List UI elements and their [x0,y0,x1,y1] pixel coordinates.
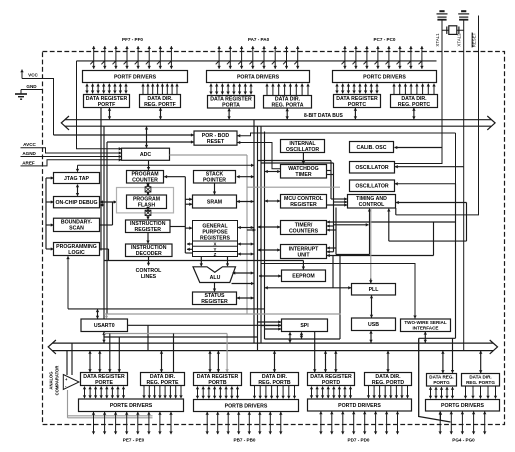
PORTB register-driver arrows [198,387,238,399]
DATA DIR. REG. PORTG box [462,374,500,387]
svg-text:AGND: AGND [22,151,36,156]
PORTE DRIVERS box [79,399,184,412]
svg-text:REG. PORTC: REG. PORTC [398,102,431,108]
PORTG register-driver arrows [431,387,453,399]
OSCILLATOR 2 box [350,180,395,192]
wire into timing and control 1 [331,198,347,200]
timing control corner wire [395,208,397,215]
SPI to frame wire [301,332,303,338]
grey frame around program flash [117,188,174,213]
bus trunk to MCU control register [265,200,280,202]
timing to PLL wire [370,208,372,278]
svg-text:SPI: SPI [300,323,309,329]
svg-text:COUNTER: COUNTER [132,178,158,184]
analog comparator [63,375,79,390]
CALIB. OSC box [350,142,394,153]
peripheral frame bottom [265,338,341,340]
GENERAL PURPOSE REGISTERS box [193,221,238,258]
bus to PORTD register 2 [335,351,337,372]
stack pointer to trunk [237,176,254,178]
wire to JTAG TAP [46,177,54,179]
svg-text:PORTB: PORTB [208,380,226,386]
8-bit data bus (top) [61,116,495,130]
wire up into timing control 2 [388,209,390,241]
wire to timing vertical [334,224,369,226]
svg-text:REG. PORTB: REG. PORTB [258,380,291,386]
XTAL2 capacitor to ground [458,11,469,20]
grey wire into USART0 [104,314,107,319]
svg-text:ON-CHIP DEBUG: ON-CHIP DEBUG [56,200,98,206]
grey vertical right of CPU [246,155,248,314]
bus trunk line 3 [260,126,262,343]
DATA DIR. REG. PORTF box [140,95,181,108]
PORTF driver-dir arrows [143,84,177,94]
ADC box [122,148,170,160]
wire into timing and control 2 [334,201,348,203]
ALU flags to trunk [232,283,254,285]
PORTA dir-reg to data bus [286,109,288,120]
PORTF DRIVERS box [83,71,188,83]
XTAL1 pin line [395,20,442,164]
Z register to bus trunk [238,253,254,255]
wire into registers [185,227,192,229]
TIMING AND CONTROL box [348,195,396,209]
MCU control to timing and control [327,204,348,206]
arrow into program counter [164,176,185,178]
SPI box [282,319,328,332]
svg-text:LOGIC: LOGIC [68,250,85,256]
grey horizontal wire [247,186,340,188]
svg-text:REG. PORTG: REG. PORTG [466,380,495,385]
TWO-WIRE SERIAL INTERFACE box [401,319,451,332]
TIMER/COUNTERS box [281,221,327,235]
PORTD pin arrows [321,412,398,435]
svg-text:PA7 - PA0: PA7 - PA0 [248,37,270,42]
VCC to POR-BOD wire [54,134,194,136]
status register to bus trunk [237,297,254,299]
svg-text:EEPROM: EEPROM [292,274,314,280]
WATCHDOG TIMER box [281,165,327,179]
instruction register to pointer wire [170,226,185,228]
ADC output wire [170,154,248,156]
svg-text:TIMER: TIMER [295,172,311,178]
long grey wire [104,313,341,315]
JTAG TAP box [54,173,100,184]
timer/counters right wire 2 [327,225,334,227]
PROGRAMMING LOGIC box [54,243,100,256]
PORTG pin arrows [440,412,485,435]
DATA DIR. REG. PORTC box [391,95,438,108]
bus to PORTD register [325,351,327,372]
SPI to bottom bus [289,332,291,342]
bus to PORTE dir-reg [161,351,163,372]
bus to PORTG dir-reg [480,351,482,373]
feed wire to JTAG and program counter [78,164,254,166]
svg-text:PORTD: PORTD [322,380,340,386]
svg-text:PORTG DRIVERS: PORTG DRIVERS [441,403,484,409]
PORTD DRIVERS box [308,399,412,411]
left trunk line 1 [100,108,102,251]
bus trunk line 4 [264,132,266,340]
RESET overline [471,33,473,48]
DATA REGISTER PORTB box [194,373,242,386]
USART wire to PORTE register [109,334,111,373]
svg-text:ALU: ALU [210,275,221,281]
watchdog right wire [327,170,332,172]
svg-text:PLL: PLL [369,287,380,293]
svg-text:DECODER: DECODER [136,251,162,257]
DATA REGISTER PORTE box [81,373,128,386]
wire into SRAM [185,198,192,200]
timing feed vertical 2 [333,163,335,252]
GND pin [21,84,43,94]
X register out wire [187,243,193,245]
internal oscillator to watchdog [302,153,304,164]
svg-text:Z: Z [214,252,217,257]
wire to two-wire serial interface [261,264,415,319]
PORTB DRIVERS box [194,400,299,412]
USART0 to bottom bus [103,332,105,343]
bus to PORTE register [89,351,91,372]
ADC wire into program counter [148,161,150,170]
program flash to latch [147,208,149,211]
DATA DIR. REG. PORTA box [264,96,312,109]
svg-text:XTAL1: XTAL1 [435,33,440,47]
INSTRUCTION DECODER box [126,244,173,257]
PORTC driver-dir arrows [394,84,434,94]
grey wire to PORTB register [104,333,227,335]
wire to BOUNDARY-SCAN [46,224,54,226]
svg-text:PG4 - PG0: PG4 - PG0 [452,438,475,443]
PORTF driver-register arrows [87,84,126,94]
wire to PORTE register 2 [118,337,120,372]
DATA REGISTER PORTC box [334,95,381,108]
PROGRAMMING LOGIC right wire [100,248,109,250]
USART0 to SPI wire [128,324,282,326]
bus trunk to interrupt unit [258,249,280,251]
TWI to bottom bus [424,332,426,343]
svg-text:PE7 - PE0: PE7 - PE0 [123,438,145,443]
bus trunk to SPI 2 [261,325,281,327]
grey wire down to PORTB register [226,334,228,373]
program counter to latch [147,184,149,187]
DATA DIR. REG. PORTB box [251,373,299,386]
bus trunk to timer/counters [258,226,280,228]
bus trunk to watchdog [265,171,280,173]
wire into trunk [247,229,256,231]
trunk to timing wire 1 [258,160,332,162]
DATA REG. PORTG box [427,374,457,387]
bus to PORTG register [442,351,444,373]
svg-text:REGISTERS: REGISTERS [200,236,231,242]
PORTC register to data bus [354,108,356,119]
registers to ALU 2 [227,257,229,266]
timing loop vertical [466,203,468,242]
boundary scan vertical wire [112,202,114,225]
PROGRAM FLASH box [127,195,167,209]
PORTE pin arrows [94,412,172,434]
BOUNDARY-SCAN wire [100,224,113,226]
PORTA driver-dir arrows [267,84,308,95]
ALU [193,267,236,283]
PORTA driver-register arrows [211,84,251,95]
comparator pin wire 1 [68,415,153,417]
svg-text:REGISTER: REGISTER [134,227,161,233]
programming logic feed from SPI [67,256,69,309]
bus to PORTB register [209,351,211,372]
latch to program flash [147,192,149,194]
bus trunk to SPI 3 [265,328,281,330]
PORTB dir-driver arrows [255,386,295,399]
svg-text:REG. PORTA: REG. PORTA [272,103,304,109]
comparator input wire 2 [71,343,73,375]
RESET pin line [396,16,479,215]
svg-text:COMPARATOR: COMPARATOR [55,366,60,396]
wire into SRAM 2 [185,203,192,205]
wire to ON-CHIP DEBUG [46,201,54,203]
svg-text:LINES: LINES [141,274,157,280]
svg-text:REGISTER: REGISTER [290,202,317,208]
PORTF analog input to ADC [77,61,122,149]
svg-text:FLASH: FLASH [138,203,156,209]
DATA DIR. REG. PORTE box [141,373,185,386]
wire along CPU bottom [68,308,264,310]
svg-text:PORTE: PORTE [95,380,113,386]
PORTF dir-reg to data bus [160,108,162,119]
VCC pin [22,70,54,136]
interrupt right wire 3 [327,255,434,257]
PORTA DRIVERS box [207,71,310,83]
svg-text:OSCILLATOR: OSCILLATOR [355,165,388,171]
svg-text:PORTF: PORTF [98,102,116,108]
svg-text:OSCILLATOR: OSCILLATOR [355,184,388,190]
PORTC pin arrows [345,46,422,68]
latch symbol above flash [145,187,151,192]
JTAG TAP to ON-CHIP DEBUG [77,185,79,196]
X register to bus trunk [238,243,254,245]
DATA DIR. REG. PORTD box [365,373,412,386]
PLL to USB [371,296,373,318]
svg-text:PORTD DRIVERS: PORTD DRIVERS [338,403,381,409]
POR-BOD right clock wire [238,133,456,136]
SRAM to bus trunk [237,201,254,203]
PORTA pin arrows [219,46,298,68]
comparator pin wire 2 [68,417,153,419]
XTAL2 wire into oscillator [395,166,464,168]
wire to PORTG drivers [419,338,451,422]
bus trunk to PLL [265,287,351,289]
svg-text:RESET: RESET [207,139,225,145]
XTAL2 pin line [463,20,465,167]
bus to PORTB register 2 [217,351,219,372]
data bus to ADC [146,127,148,148]
bus trunk line 1 [253,120,255,343]
comparator to port wire [67,390,69,418]
svg-text:REG. PORTF: REG. PORTF [144,102,176,108]
latch symbol below flash [145,210,151,215]
wire toward PORTG [419,337,456,339]
interrupt right wire [327,247,336,249]
branch to oscillator 2 [395,133,456,184]
pin wire hooks [90,61,422,64]
interrupt wire to PLL line [332,256,334,288]
svg-text:PD7 - PD0: PD7 - PD0 [348,438,370,443]
svg-text:PC7 - PC0: PC7 - PC0 [374,37,396,42]
watchdog right wire 2 [327,174,334,176]
POR-BOD to watchdog wire [238,143,281,169]
left trunk line 3 [106,142,108,314]
PORTC DRIVERS box [333,71,437,83]
svg-text:PORTA: PORTA [222,103,240,109]
svg-text:INTERFACE: INTERFACE [412,326,438,331]
XTAL1 capacitor to ground [437,11,448,20]
wire to POR-BOD [107,141,194,143]
INTERNAL OSCILLATOR box [281,140,325,153]
svg-text:UNIT: UNIT [297,252,310,258]
PORTA register to data bus [228,109,230,120]
AGND pin [21,151,122,156]
timer clock wire from oscillator [327,221,456,223]
vertical wire right of timing [455,184,457,338]
svg-text:CONTROL: CONTROL [136,268,162,274]
timer control vertical [335,208,337,255]
svg-text:PORTG: PORTG [433,380,450,385]
horizontal wire above bus [104,336,258,338]
timing loop horizontal [389,240,467,242]
stack pointer to SRAM [214,184,216,195]
USART wire to port [147,325,149,350]
AVCC pin [21,142,122,153]
timer/counters right wire 3 [327,229,336,231]
calib osc wire to XTAL1 [395,147,443,149]
left test wire trunk [45,178,47,249]
pointer address wire [184,177,186,253]
8-bit data bus (bottom) [48,340,497,354]
timing feed vertical 1 [330,161,332,200]
arrow into PLL [370,279,372,284]
timing control right wire [396,202,467,204]
PORTD register-driver arrows [312,387,351,399]
PORTB pin arrows [207,412,281,434]
svg-text:POINTER: POINTER [203,178,226,184]
Y register out wire [187,248,193,250]
PORTE register-driver arrows [85,387,124,399]
USB box [352,318,396,331]
svg-text:ADC: ADC [140,152,151,158]
USART0 box [81,319,128,332]
instruction register to decoder [147,233,149,243]
svg-text:USB: USB [368,322,379,328]
PORTG DRIVERS box [426,400,500,412]
bus to PORTB dir-reg [274,351,276,372]
svg-text:PB7 - PB0: PB7 - PB0 [234,438,256,443]
peripheral frame vertical [339,256,341,340]
PORTC driver-register arrows [337,84,377,94]
ON-CHIP DEBUG box [54,197,100,208]
DATA REGISTER PORTD box [308,373,355,386]
PORTF register to data bus [109,108,111,119]
svg-text:AREF: AREF [22,160,35,165]
ON-CHIP DEBUG to program flash [100,201,116,203]
svg-text:PF7 - PF0: PF7 - PF0 [122,37,143,42]
core to USART0 [97,309,99,318]
svg-text:X: X [214,242,217,247]
svg-text:REGISTER: REGISTER [201,299,228,305]
svg-text:COUNTERS: COUNTERS [289,228,319,234]
svg-text:SRAM: SRAM [207,199,222,205]
svg-text:REG. PORTD: REG. PORTD [372,380,405,386]
DATA REGISTER PORTF box [84,95,130,108]
svg-text:DATA DIR.: DATA DIR. [469,375,491,380]
PORTE dir-driver arrows [144,386,181,398]
wire into Z register [185,252,192,254]
DATA REGISTER PORTA box [208,96,255,109]
BOUNDARY-SCAN box [54,218,100,232]
svg-text:8-BIT DATA BUS: 8-BIT DATA BUS [304,113,343,119]
svg-text:XTAL2: XTAL2 [457,33,462,47]
svg-text:ANALOG: ANALOG [49,371,54,389]
interrupt right wire 2 [327,251,334,253]
USB to bottom bus [370,331,372,343]
svg-text:CONTROL: CONTROL [359,202,385,208]
XTAL2 line continues to bottom bus [463,167,465,351]
PORTE dir wire up [173,334,175,373]
wire to timing control bottom [336,254,370,256]
PORTF pin arrows [94,46,172,68]
wire down into EEPROM [302,261,304,270]
PROGRAM COUNTER box [127,171,164,184]
svg-text:SCAN: SCAN [69,226,84,232]
programming logic wire down [108,249,110,261]
EEPROM box [282,270,326,282]
PLL box [352,284,396,296]
MCU CONTROL REGISTER box [281,195,327,209]
svg-text:CALIB. OSC: CALIB. OSC [357,145,387,151]
registers to bus trunk [238,227,254,229]
bus trunk to SPI 1 [258,321,281,323]
POR-BOD RESET box [194,131,237,145]
STATUS REGISTER box [193,292,237,305]
left trunk line 2 [103,126,105,337]
comparator input wire 1 [66,351,68,375]
svg-text:PORTC DRIVERS: PORTC DRIVERS [363,74,406,80]
svg-text:PORTA DRIVERS: PORTA DRIVERS [237,74,280,80]
SPI wire to PORTD register [314,332,316,372]
crystal [442,26,464,35]
svg-text:PORTE DRIVERS: PORTE DRIVERS [110,403,153,409]
pin row wire [77,60,437,62]
svg-text:VCC: VCC [28,73,38,78]
chip dashed border [43,52,505,425]
decoder to control lines [148,257,150,266]
svg-text:TWO-WIRE SERIAL: TWO-WIRE SERIAL [404,320,447,325]
PORTD dir-driver arrows [369,386,408,398]
PORTG dir-driver arrows [466,386,496,398]
wire to PROGRAMMING LOGIC [46,248,54,250]
horizontal wire to EEPROM [104,260,303,262]
svg-text:DATA REG.: DATA REG. [429,375,453,380]
ground symbol [15,94,27,99]
wire up into timing control [369,209,371,255]
svg-text:GND: GND [26,84,37,89]
svg-text:OSCILLATOR: OSCILLATOR [286,147,319,153]
STACK POINTER box [194,171,236,184]
trunk to timing wire 2 [261,162,334,164]
svg-text:USART0: USART0 [94,323,115,329]
INTERRUPT UNIT box [281,245,327,259]
svg-text:JTAG TAP: JTAG TAP [64,176,89,182]
OSCILLATOR box [350,162,395,174]
